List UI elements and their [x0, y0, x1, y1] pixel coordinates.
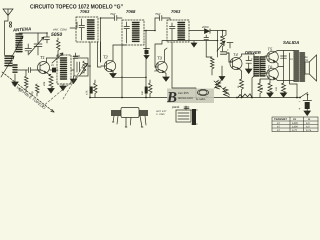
coupling coil — [13, 65, 17, 72]
series capacitor 2 — [155, 16, 170, 21]
feedback verticals — [281, 51, 287, 84]
resistor with blob 1 — [90, 87, 93, 94]
bypass cap mid — [144, 48, 150, 50]
center tap to bus — [296, 84, 298, 98]
coupling electrolytic — [221, 52, 233, 62]
wire top — [101, 17, 115, 19]
svg-text:TRANSIST: TRANSIST — [274, 118, 287, 121]
svg-text:4.7k: 4.7k — [86, 90, 89, 95]
svg-text:5050: 5050 — [51, 32, 62, 38]
svg-text:T6: T6 — [268, 65, 273, 70]
capacitor blob after T1 — [52, 68, 56, 73]
T2 emitter ground — [110, 74, 116, 78]
variable capacitor C1a — [34, 33, 42, 55]
resistor R2 (osc) — [57, 38, 61, 58]
entry wire — [70, 22, 77, 28]
ground at coil — [14, 74, 16, 82]
arrow down to AF — [221, 66, 223, 76]
AGC vertical — [100, 18, 102, 62]
svg-text:B: B — [166, 90, 177, 106]
svg-text:100: 100 — [275, 86, 278, 91]
resistor cluster 2 — [223, 87, 231, 98]
svg-text:DRIVER: DRIVER — [245, 50, 261, 55]
base bias resistor — [25, 70, 29, 92]
svg-text:paral.: paral. — [171, 105, 180, 109]
battery switch — [299, 97, 301, 99]
padder box — [73, 53, 78, 58]
ground below padder — [73, 76, 75, 79]
verticals to bus — [121, 45, 123, 98]
svg-text:2000: 2000 — [201, 25, 209, 29]
wires above resistors — [260, 79, 270, 83]
resistor near pot — [205, 92, 209, 98]
svg-text:22k: 22k — [43, 81, 46, 87]
svg-text:7063: 7063 — [171, 9, 181, 14]
transistor T1 — [38, 62, 50, 74]
svg-text:T2: T2 — [103, 55, 109, 60]
volume pot — [221, 36, 225, 51]
ground — [48, 89, 54, 94]
speaker — [305, 62, 309, 74]
detector diode — [189, 30, 204, 32]
table — [272, 117, 318, 132]
tuning arrow — [29, 37, 44, 54]
detector filter cap 2 — [217, 31, 219, 58]
resistor det — [206, 43, 214, 75]
dashed diagonal A with text — [2, 72, 54, 112]
wires below box C — [172, 42, 196, 98]
collector wire — [47, 57, 63, 59]
svg-text:ANT. COM.: ANT. COM. — [52, 28, 67, 32]
transistor T2 — [104, 60, 115, 71]
svg-text:25: 25 — [50, 64, 54, 67]
emitters join — [278, 66, 284, 68]
bus resistor — [238, 94, 252, 98]
svg-text:2W: 2W — [303, 59, 308, 62]
svg-text:T4: T4 — [233, 52, 238, 57]
dashed diagonal C (padder gang line) — [63, 64, 84, 99]
emitter resistor — [49, 75, 53, 89]
antenna coil L1 — [16, 34, 22, 52]
transistor T3 — [156, 61, 167, 72]
T3 collector wire — [165, 48, 168, 50]
oscillator coil box — [57, 55, 71, 84]
AVC line — [155, 41, 218, 68]
svg-text:tu radio: tu radio — [196, 97, 206, 101]
osc arrow — [52, 53, 63, 63]
transistor T6 — [267, 68, 279, 80]
svg-text:SALIDA: SALIDA — [283, 40, 299, 45]
svg-text:75pf: 75pf — [110, 13, 115, 16]
svg-text:T5: T5 — [268, 47, 273, 52]
svg-text:7063: 7063 — [80, 9, 90, 14]
coil arrow — [12, 36, 23, 57]
transistor T5 — [267, 51, 279, 63]
trimmer — [45, 33, 50, 43]
electrolytic at T4 — [246, 56, 252, 69]
collector to box B — [113, 44, 126, 46]
watermark stamp — [167, 89, 214, 104]
T4 emitter resistor to bus — [240, 71, 244, 98]
resistor cluster 1 — [214, 80, 222, 89]
svg-text:+: + — [227, 48, 229, 52]
svg-text:CIRCUITO TOPECO 1072 MODELO: CIRCUITO TOPECO 1072 MODELO “G” — [30, 4, 123, 11]
resistor — [36, 84, 40, 96]
svg-text:+: + — [299, 107, 301, 111]
gang capacitor drawing — [111, 110, 148, 116]
svg-text:T1: T1 — [40, 55, 45, 60]
svg-text:C. OND.: C. OND. — [156, 113, 165, 116]
bottom bus — [90, 97, 300, 99]
svg-text:Vc: Vc — [293, 118, 297, 121]
svg-text:T3: T3 — [157, 56, 163, 61]
antenna — [3, 9, 13, 55]
wires below box A — [90, 42, 101, 98]
svg-text:−: − — [299, 100, 301, 104]
transistor T4 — [230, 58, 242, 70]
svg-text:0.005: 0.005 — [73, 54, 80, 58]
resistor with blob 2 — [145, 87, 148, 94]
box B exit wires — [144, 18, 155, 98]
series capacitor 1 — [115, 16, 123, 21]
dashed diagonal B — [42, 70, 86, 107]
ferrite arrow — [1, 56, 14, 77]
ferrite rod coil — [5, 56, 12, 66]
battery — [303, 95, 312, 101]
wire — [17, 69, 28, 71]
svg-text:75pf: 75pf — [155, 13, 160, 16]
ground below osc coil — [62, 84, 64, 86]
inset drawing — [176, 110, 191, 122]
svg-text:7068: 7068 — [126, 9, 136, 14]
svg-text:4,7a: 4,7a — [306, 129, 312, 132]
svg-text:stereo.com: stereo.com — [178, 96, 193, 100]
svg-text:4,70: 4,70 — [292, 129, 298, 132]
capacitor — [29, 68, 38, 73]
wire — [19, 32, 47, 34]
svg-text:+: + — [251, 57, 253, 61]
svg-text:ese 255: ese 255 — [178, 91, 189, 95]
wires — [71, 66, 90, 70]
output stage resistors — [258, 83, 262, 98]
